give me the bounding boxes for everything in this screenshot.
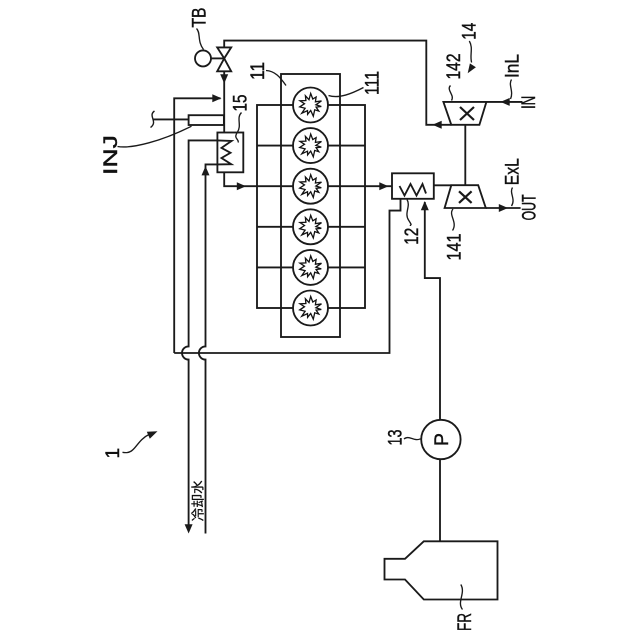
heat exchanger 12 box [392, 173, 434, 199]
engine rung lines [257, 146, 365, 268]
svg-text:141: 141 [445, 234, 466, 261]
leader 1 with arrow [123, 434, 150, 452]
svg-text:OUT: OUT [519, 194, 540, 220]
wire: cooling water out of 15 down to bottom edge [182, 140, 217, 524]
compressor 142 trapezoid [443, 102, 486, 125]
cylinder 6 combustion chamber 111 [293, 291, 328, 326]
svg-text:INJ: INJ [101, 135, 122, 175]
svg-text:11: 11 [248, 62, 269, 80]
leader TB [197, 29, 204, 50]
wire: cooling water from pump 13 up into 12 [425, 202, 440, 420]
svg-text:1: 1 [103, 448, 124, 459]
leader 141 [452, 209, 455, 231]
svg-text:111: 111 [363, 71, 384, 95]
svg-text:14: 14 [460, 22, 481, 39]
leader InL [510, 80, 511, 100]
radiator FR outline [385, 541, 498, 599]
pump 13 circle [421, 420, 460, 459]
engine 11 inner block [281, 74, 340, 337]
svg-text:TB: TB [190, 8, 211, 28]
leader INJ [118, 126, 192, 147]
leader 14 with arrow [469, 41, 471, 63]
svg-text:ExL: ExL [503, 158, 524, 185]
wire: intake pipe valve to intercooler 15 [223, 71, 225, 132]
svg-text:FR: FR [455, 613, 476, 631]
svg-text:InL: InL [503, 54, 524, 78]
svg-text:15: 15 [231, 95, 252, 112]
cylinder 2 combustion chamber 111 [293, 128, 328, 163]
wire: pump to radiator FR [439, 459, 441, 541]
arrow on compressor outlet pointing left [433, 121, 442, 129]
cylinder 4 combustion chamber 111 [293, 209, 328, 244]
break mark on feed line [151, 111, 155, 128]
leader 12 [407, 200, 411, 227]
wire: intake IN line [486, 101, 522, 103]
valve TB actuator circle [195, 50, 211, 66]
heat exchanger 15 zigzag coil [217, 140, 231, 164]
leader ExL [511, 188, 513, 207]
wire: 12 to turbine 141 [434, 184, 452, 186]
leader 142 [449, 86, 452, 101]
heat exchanger 12 zigzag coil [400, 184, 427, 196]
svg-text:13: 13 [386, 430, 407, 446]
leader FR [460, 585, 462, 610]
turbo shaft [464, 125, 466, 185]
wire: cooling water out of 12 to bottom manifold [174, 199, 400, 353]
leader 111 [329, 88, 364, 97]
injector INJ body [189, 115, 224, 125]
wire: actuator link [211, 57, 224, 59]
label cooling water kanji [191, 481, 204, 521]
wire: compressor outlet to throttle valve (top loop) [224, 41, 451, 125]
cylinder 3 combustion chamber 111 [293, 169, 328, 204]
wire: cooling water supply into 15 (up arrow) [199, 164, 218, 533]
wire: exhaust out line OUT [486, 207, 521, 209]
leader 13 [404, 438, 421, 440]
svg-text:IN: IN [519, 96, 540, 109]
engine 11 outer block [257, 105, 365, 308]
heat exchanger 15 box [217, 133, 243, 173]
svg-text:142: 142 [444, 54, 465, 80]
wire: injector feed line [153, 118, 188, 120]
wire: intake from 15 through engine to heat exchanger 12 [224, 172, 392, 186]
turbine 141 trapezoid [445, 185, 486, 208]
wire: injection water line with right arrow into intake [174, 98, 220, 353]
leader 15 [236, 113, 242, 143]
cylinder 5 combustion chamber 111 [293, 250, 328, 285]
svg-text:P: P [432, 433, 453, 446]
svg-text:12: 12 [402, 228, 423, 245]
cylinder 1 combustion chamber 111 [293, 88, 328, 123]
leader 11 [266, 71, 286, 86]
valve TB bowtie [217, 47, 231, 71]
